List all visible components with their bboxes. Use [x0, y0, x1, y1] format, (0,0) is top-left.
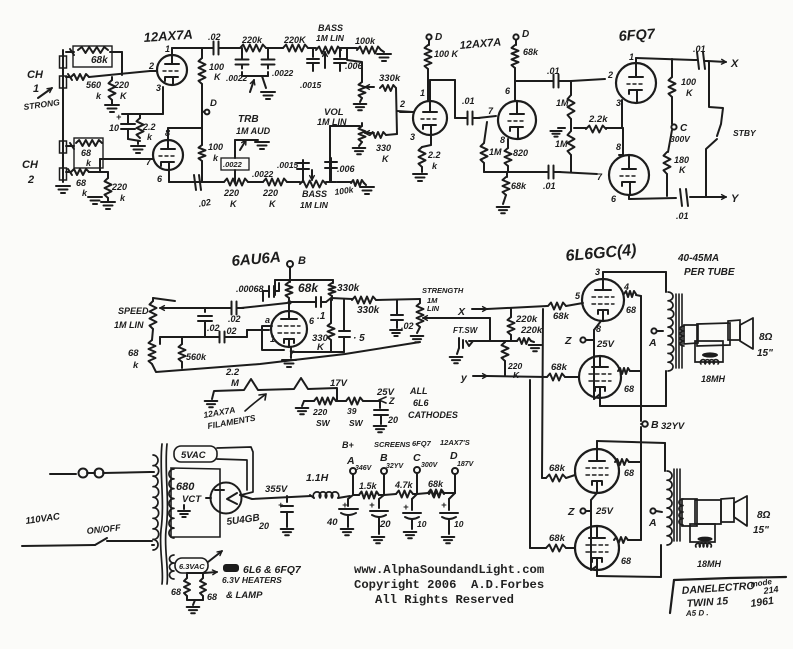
- svg-text:Z: Z: [388, 396, 395, 406]
- wire wiper drop to footswitch rail: [489, 318, 491, 341]
- svg-text:STBY: STBY: [733, 128, 757, 138]
- wire V3b top from PI: [622, 128, 624, 155]
- wire: [341, 47, 357, 49]
- svg-text:68k: 68k: [551, 362, 568, 373]
- svg-text:68k: 68k: [91, 55, 108, 66]
- input jack J2 tip: [60, 76, 67, 88]
- svg-text:180: 180: [674, 155, 689, 165]
- input jack J1 tip: [60, 56, 67, 68]
- wire tone out to V2a grid: [400, 111, 413, 113]
- grid return box: [262, 326, 272, 337]
- svg-text:D: D: [210, 98, 217, 109]
- svg-text:2.2k: 2.2k: [588, 114, 608, 125]
- svg-text:a: a: [265, 315, 270, 325]
- capacitor .006 bottom: [330, 158, 332, 182]
- svg-text:BASS: BASS: [318, 23, 343, 33]
- ground V4 cathode: [290, 347, 292, 358]
- wire V2b cathode: [507, 139, 509, 148]
- svg-text:8Ω: 8Ω: [759, 332, 773, 343]
- ground 20 cap: [374, 425, 387, 427]
- svg-text:.0015: .0015: [300, 80, 322, 90]
- svg-text:2: 2: [399, 99, 405, 109]
- svg-text:68k: 68k: [428, 479, 444, 489]
- capacitor .0022 hang 1: [241, 48, 243, 55]
- svg-text:+: +: [403, 502, 409, 513]
- speaker SP1 body: [697, 323, 730, 346]
- svg-text:+: +: [116, 112, 122, 122]
- svg-text:10: 10: [454, 519, 464, 529]
- resistor 220 k bottom 2: [263, 179, 287, 186]
- pot tone right vertical: [361, 75, 363, 82]
- resistor 68 V7 screen: [615, 459, 629, 465]
- svg-text:100k: 100k: [334, 184, 355, 197]
- capacitor .1 plate coupling: [315, 297, 317, 307]
- svg-text:K: K: [679, 165, 687, 175]
- ground 100k top right: [381, 50, 384, 52]
- capacitor .02 vertical mid: [204, 308, 206, 312]
- svg-text:20: 20: [379, 519, 391, 530]
- wire cathode rc bottom: [128, 139, 140, 141]
- svg-text:k: k: [432, 161, 438, 171]
- resistor 68k V7 grid: [546, 475, 566, 482]
- svg-text:330: 330: [376, 143, 391, 153]
- capacitor .01 interstage: [467, 112, 469, 125]
- resistor 220 k bottom 1: [224, 179, 248, 186]
- wire V3b plate bottom: [628, 195, 630, 199]
- svg-text:B: B: [651, 419, 659, 431]
- wire V8 plate to OT2: [596, 570, 598, 576]
- wire to V2b grid: [478, 116, 496, 118]
- resistor 68k filter: [417, 493, 428, 494]
- node D second: [426, 34, 431, 39]
- wire VOL top to bottom rail: [330, 125, 360, 127]
- svg-text:www.AlphaSoundandLight.com: www.AlphaSoundandLight.com: [354, 563, 544, 577]
- svg-text:1: 1: [33, 83, 39, 95]
- svg-text:.01: .01: [543, 181, 556, 191]
- svg-text:1.5k: 1.5k: [359, 481, 378, 491]
- svg-text:40: 40: [326, 517, 338, 528]
- node B 32YV: [642, 421, 648, 427]
- wiper arrow VOL pot: [365, 132, 374, 134]
- wire to 1M junction: [564, 80, 571, 82]
- svg-text:1: 1: [165, 44, 170, 54]
- wire: [205, 181, 224, 183]
- svg-text:STRENGTH: STRENGTH: [422, 286, 464, 295]
- svg-text:CH: CH: [27, 69, 44, 81]
- resistor 100k bottom right: [337, 181, 351, 183]
- svg-text:6: 6: [309, 316, 315, 326]
- capacitor .00068: [268, 286, 270, 297]
- svg-text:k: k: [133, 360, 139, 371]
- svg-text:330k: 330k: [357, 305, 380, 316]
- pot TRB wiper arrow: [250, 80, 254, 92]
- wire rectifier out 355V: [240, 495, 311, 499]
- svg-text:1M LIN: 1M LIN: [114, 320, 144, 330]
- speaker SP1 neck: [684, 325, 698, 344]
- resistor 68 V5 screen: [624, 291, 636, 297]
- capacitor .01 lower interstage: [548, 166, 550, 179]
- speaker SP1 magnet scribble: [702, 352, 718, 357]
- filter node wire to A: [352, 475, 354, 495]
- wire plate V1a up: [171, 48, 173, 55]
- capacitor .02 bottom: [194, 175, 196, 190]
- svg-text:32YV: 32YV: [661, 421, 685, 432]
- svg-text:X: X: [457, 306, 466, 318]
- arrow X output: [708, 61, 726, 62]
- svg-text:SW: SW: [316, 418, 331, 428]
- svg-text:6FQ7: 6FQ7: [618, 26, 656, 45]
- svg-text:All Rights Reserved: All Rights Reserved: [375, 593, 514, 607]
- capacitor .006 top: [339, 48, 341, 57]
- resistor 1.5k filter: [359, 492, 379, 499]
- resistor 820 V2b cathode: [505, 148, 512, 166]
- svg-text:.02: .02: [198, 197, 212, 209]
- wire tone pot top: [341, 48, 362, 75]
- winding 6.3VAC box: [175, 558, 208, 573]
- capacitor .02 lower: [219, 332, 221, 343]
- node D supply: [452, 468, 458, 474]
- svg-text:330k: 330k: [379, 73, 401, 84]
- svg-text:+: +: [441, 500, 447, 511]
- wire to 220k first: [224, 47, 240, 49]
- resistor 330k horizontal to strength: [352, 297, 376, 304]
- wire: [326, 181, 336, 183]
- resistor 68k bias: [506, 172, 508, 177]
- OT1 secondary: [680, 326, 684, 346]
- resistor 68 k speed bottom: [149, 340, 156, 364]
- svg-text:32YV: 32YV: [386, 463, 404, 470]
- svg-text:6: 6: [157, 174, 163, 184]
- svg-text:DANELECTRO: DANELECTRO: [681, 580, 755, 597]
- svg-text:5VAC: 5VAC: [181, 450, 206, 461]
- resistor 220k grid upper vertical: [508, 317, 515, 335]
- wire tremolo top rail: [289, 267, 291, 282]
- svg-text:.01: .01: [676, 211, 689, 221]
- svg-text:X: X: [730, 58, 739, 70]
- ground 68k bias: [503, 195, 506, 204]
- svg-text:68: 68: [128, 348, 139, 359]
- svg-text:Z: Z: [567, 506, 575, 518]
- node D first: [202, 111, 204, 112]
- capacitor 20 cathode: [379, 401, 381, 408]
- svg-text:3: 3: [616, 98, 621, 108]
- svg-text:+: +: [369, 500, 375, 511]
- svg-text:1961: 1961: [750, 595, 775, 610]
- resistor 220k tone 1: [240, 45, 266, 52]
- wire B rail down to lower screens: [640, 427, 642, 462]
- resistor 68k V5 grid: [548, 303, 566, 310]
- svg-text:68: 68: [621, 556, 631, 566]
- svg-text:1M AUD: 1M AUD: [236, 126, 271, 136]
- capacitor 10 filter D: [449, 493, 455, 499]
- svg-text:.02: .02: [224, 326, 237, 336]
- svg-text:25V: 25V: [596, 339, 615, 350]
- svg-text:k: k: [213, 153, 219, 163]
- capacitor .0022 boxed bottom: [221, 158, 249, 170]
- svg-text:.0022: .0022: [226, 73, 248, 83]
- svg-text:.1: .1: [317, 311, 326, 322]
- resistor 2.2k cathode vertical: [139, 114, 141, 118]
- wire jack3 to 68k box CH2: [66, 145, 74, 147]
- capacitor .0022 hang 2: [267, 48, 269, 55]
- capacitor .01 X out: [697, 52, 699, 69]
- tube V1b 12AX7A triode: [153, 140, 183, 170]
- svg-text:K: K: [513, 370, 520, 380]
- ground jack rail: [56, 185, 70, 187]
- svg-text:B: B: [298, 255, 306, 267]
- wire 68k box to grid row: [110, 51, 122, 53]
- pot arrow TRB bottom: [240, 140, 246, 150]
- resistor 1M lower: [568, 131, 575, 155]
- svg-text:.02: .02: [401, 321, 414, 331]
- node B tremolo: [287, 261, 293, 267]
- svg-text:110VAC: 110VAC: [25, 511, 61, 527]
- svg-text:68k: 68k: [549, 463, 566, 474]
- svg-text:C: C: [413, 452, 421, 464]
- svg-text:820: 820: [513, 148, 528, 158]
- svg-text:1.1H: 1.1H: [306, 472, 329, 484]
- svg-text:560: 560: [86, 80, 101, 90]
- node A OT2: [650, 508, 655, 513]
- svg-text:680: 680: [176, 481, 195, 493]
- svg-text:300V: 300V: [670, 134, 691, 144]
- svg-text:68: 68: [207, 592, 217, 602]
- speaker SP1 horn: [740, 318, 753, 349]
- wire strength wiper right: [433, 317, 490, 319]
- svg-text:18MH: 18MH: [697, 559, 722, 569]
- ground .02 strength: [390, 329, 402, 331]
- resistor 330k horizontal right: [380, 85, 396, 91]
- svg-text:C: C: [680, 123, 688, 134]
- svg-text:6: 6: [505, 86, 511, 96]
- ground bottom right: [364, 183, 366, 185]
- title box frame: [674, 577, 786, 580]
- label Z arrow cathodes: [379, 397, 386, 403]
- svg-text:346V: 346V: [355, 465, 373, 472]
- svg-text:B+: B+: [342, 440, 354, 450]
- wire 5VAC loop to rectifier: [217, 447, 253, 495]
- svg-text:3: 3: [595, 267, 600, 277]
- svg-text:68k: 68k: [298, 281, 319, 295]
- wire V1b plate net: [199, 127, 202, 129]
- resistor 68 humdinger 1: [186, 573, 188, 578]
- svg-text:6FQ7: 6FQ7: [412, 439, 432, 448]
- svg-text:560k: 560k: [186, 352, 207, 362]
- winding 680 VCT box: [171, 468, 220, 537]
- node B supply: [381, 468, 387, 474]
- capacitor .02 coupling top: [213, 42, 215, 55]
- speaker SP1 frame: [728, 320, 740, 340]
- svg-text:7: 7: [488, 106, 494, 116]
- capacitor .02 top tremolo: [231, 302, 233, 315]
- wire plate node to mid rail: [288, 301, 290, 311]
- svg-text:BASS: BASS: [302, 189, 327, 199]
- svg-text:5U4GB: 5U4GB: [226, 512, 261, 528]
- svg-text:A: A: [648, 337, 657, 349]
- resistor 68k CH2 boxed: [74, 138, 103, 168]
- input jack J4 tip: [60, 168, 67, 180]
- fuse F1: [79, 469, 88, 478]
- OT1 core: [675, 294, 677, 368]
- resistor 68k V8 grid: [546, 545, 566, 552]
- svg-text:6.3V HEATERS: 6.3V HEATERS: [222, 575, 282, 585]
- resistor 2.2k PI tail: [574, 127, 586, 129]
- transformer T1 core: [161, 444, 163, 584]
- node C: [671, 124, 676, 129]
- wire right rail short: [396, 88, 397, 134]
- wire humdinger: [187, 572, 203, 574]
- wiper arrow strength: [423, 317, 433, 319]
- resistor 220k CH2 vertical: [107, 172, 109, 178]
- node plate junction: [287, 300, 291, 304]
- capacitor 10uF cathode: [127, 114, 129, 124]
- svg-text:330k: 330k: [337, 283, 360, 294]
- svg-text:k: k: [86, 158, 92, 168]
- wire cathode V1a down: [162, 87, 164, 114]
- speaker SP2 frame: [721, 498, 734, 522]
- wire tremolo bottom rail: [291, 351, 344, 353]
- svg-text:PER TUBE: PER TUBE: [684, 267, 735, 278]
- svg-text:68k: 68k: [549, 533, 566, 544]
- wire jack4 row: [66, 171, 70, 173]
- 12AX7A filament humps: [212, 378, 337, 400]
- svg-text:4.7k: 4.7k: [394, 480, 414, 490]
- node D2: [513, 34, 518, 39]
- svg-text:220: 220: [262, 188, 278, 198]
- resistor 68k V2b plate: [515, 40, 517, 45]
- svg-text:.02: .02: [208, 32, 221, 42]
- arrow 6.3V heaters lower: [204, 572, 217, 573]
- winding 5VAC box: [174, 446, 217, 462]
- capacitor 20 filter B: [379, 495, 384, 499]
- svg-text:· 5: · 5: [353, 333, 365, 344]
- resistor 4.7k filter: [384, 494, 396, 495]
- svg-text:8Ω: 8Ω: [757, 510, 771, 521]
- input jack rail CH1/CH2: [62, 50, 64, 182]
- resistor 220k CH1 vertical: [109, 80, 116, 100]
- resistor 330 K horizontal lower: [370, 132, 386, 138]
- resistor 100k plate dropper vertical: [201, 48, 203, 58]
- svg-text:.0022: .0022: [272, 68, 294, 78]
- svg-text:25V: 25V: [595, 506, 614, 517]
- svg-text:220: 220: [312, 407, 327, 417]
- svg-text:.0022: .0022: [223, 160, 243, 169]
- wire mains top: [50, 473, 76, 475]
- speaker SP2 horn: [734, 496, 747, 526]
- resistor 180 K lower: [668, 130, 672, 152]
- svg-text:.01: .01: [547, 66, 560, 76]
- capacitor 40 filter A: [348, 495, 353, 499]
- svg-text:18MH: 18MH: [701, 374, 726, 384]
- svg-text:2.2: 2.2: [225, 367, 240, 378]
- svg-text:1M: 1M: [489, 147, 502, 157]
- svg-text:2: 2: [27, 174, 34, 186]
- svg-text:5: 5: [575, 291, 581, 301]
- svg-text:100 K: 100 K: [434, 49, 460, 59]
- wire grid V4: [247, 329, 269, 331]
- svg-text:187V: 187V: [457, 461, 475, 468]
- wire plate rail top: [172, 47, 206, 49]
- svg-text:LIN: LIN: [427, 304, 440, 313]
- svg-text:.00068: .00068: [236, 284, 264, 294]
- svg-text:K: K: [382, 154, 390, 164]
- OT2 primary: [667, 471, 672, 545]
- wire B rail lower segment: [640, 462, 642, 540]
- rectifier V9 5U4GB: [211, 483, 242, 514]
- svg-text:12AX7A: 12AX7A: [143, 27, 193, 45]
- svg-text:2: 2: [607, 70, 613, 80]
- resistor 1M upper: [570, 81, 572, 95]
- ground VOL pot: [359, 142, 362, 146]
- svg-text:355V: 355V: [265, 484, 288, 495]
- ground 1M junction: [558, 127, 565, 129]
- resistor 100 K to C: [671, 59, 673, 77]
- svg-text:68: 68: [624, 384, 634, 394]
- transformer T1 primary winding: [153, 455, 159, 550]
- resistor 220k tone 2: [283, 45, 308, 52]
- ground V2a cathode: [421, 167, 423, 172]
- OT1 output transformer primary: [668, 292, 674, 371]
- svg-text:300V: 300V: [421, 462, 439, 469]
- svg-text:.0015: .0015: [277, 160, 299, 170]
- svg-text:K: K: [120, 91, 128, 101]
- ground strength: [417, 327, 420, 333]
- capacitor 20 first filter: [286, 496, 288, 502]
- pot BASS 1M LIN top: [316, 47, 341, 54]
- speaker SP2 magnet scribble: [698, 537, 713, 542]
- resistor 560k tremolo: [159, 337, 161, 344]
- pot BASS bottom: [300, 181, 326, 188]
- ground CH2 resistors: [88, 196, 102, 198]
- resistor 68 V8 screen: [614, 537, 628, 543]
- resistor 68 V6 screen: [618, 368, 630, 374]
- svg-text:100: 100: [681, 77, 696, 87]
- svg-text:68: 68: [76, 178, 86, 188]
- wire: [266, 47, 283, 49]
- capacitor .01 Y out: [680, 189, 682, 206]
- tube V8 6L6 lower-right: [575, 526, 619, 570]
- svg-text:K: K: [214, 72, 222, 82]
- wire: [308, 47, 316, 49]
- svg-text:ON/OFF: ON/OFF: [86, 522, 121, 536]
- wire plate V1b top: [167, 128, 169, 140]
- svg-text:20: 20: [387, 415, 398, 425]
- svg-text:220: 220: [113, 80, 129, 90]
- svg-text:6AU6A: 6AU6A: [231, 249, 281, 270]
- svg-text:k: k: [96, 91, 102, 101]
- resistor 100 k mid vertical (V1b): [199, 145, 206, 161]
- tube V1a 12AX7A triode: [157, 55, 187, 85]
- svg-text:220k: 220k: [515, 314, 538, 325]
- tube V5 6L6 upper-left: [582, 279, 624, 321]
- capacitor 10 filter C: [412, 494, 417, 499]
- capacitor .5: [343, 300, 345, 330]
- wiper arrow tone pot: [365, 86, 374, 88]
- wire grid V1b: [150, 158, 153, 160]
- capacitor hang bottom 1: [302, 160, 304, 182]
- resistor 100k V2a plate: [428, 40, 430, 45]
- ground TRB bottom: [255, 141, 269, 143]
- tube V3a 6FQ7: [616, 63, 656, 103]
- wire V6 plate to OT bottom: [599, 398, 601, 406]
- wire V2a plate to coupling: [429, 96, 431, 101]
- svg-text:8: 8: [500, 135, 505, 145]
- svg-text:STRONG: STRONG: [23, 97, 61, 112]
- ground filament left: [205, 400, 218, 402]
- svg-text:3: 3: [410, 132, 415, 142]
- switch STBY: [709, 62, 723, 136]
- svg-text:SCREENS: SCREENS: [374, 440, 410, 449]
